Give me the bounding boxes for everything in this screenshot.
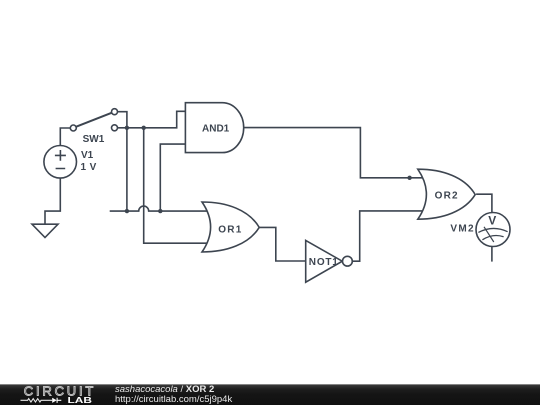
svg-text:VM2: VM2 [450, 223, 474, 234]
svg-text:NOT1: NOT1 [309, 257, 339, 268]
wire NOT1 output to OR2 lower input [352, 211, 427, 261]
voltage source V1 [44, 146, 77, 179]
node junction dot at AND1 input branch [142, 126, 146, 130]
node junction dot at SW1 throws [125, 126, 129, 130]
node junction dot bottom net right [158, 209, 162, 213]
wire AND1 output to OR2 upper input [244, 128, 428, 178]
wire OR1 output to NOT1 input [259, 227, 306, 261]
credit line 1 [115, 384, 214, 395]
and-gate AND1 [185, 103, 243, 153]
logo resistor zigzag [21, 399, 53, 402]
wire AND1 lower input riser [160, 144, 185, 211]
svg-text:V1: V1 [81, 150, 94, 161]
svg-text:1: 1 [81, 162, 87, 173]
logo CIRCUIT LAB [0, 384, 110, 405]
svg-text:V: V [488, 213, 496, 227]
credit line 2 [115, 394, 232, 405]
switch SW1 [70, 125, 76, 131]
wire VM2 bottom stub [491, 247, 493, 262]
wire V1 bottom to ground [45, 178, 60, 224]
not-gate NOT1 [306, 240, 343, 282]
wire junction vertical to OR1 lower input [144, 128, 210, 243]
svg-text:OR1: OR1 [218, 225, 242, 236]
ground [32, 224, 58, 237]
wire SW1 top throw down to common-throw net [118, 112, 127, 211]
logo diode [52, 398, 57, 403]
wire SW1 bottom throw to AND1 upper input [118, 111, 186, 128]
footer bar [0, 384, 540, 405]
wire bottom net with hop over vertical [110, 206, 210, 211]
or-gate OR1 [202, 202, 259, 252]
svg-text:LAB: LAB [68, 396, 92, 405]
voltmeter VM2 [476, 213, 510, 247]
node junction dot bottom net left [125, 209, 129, 213]
wire OR2 output to VM2 [476, 194, 492, 212]
wire V1 top to SW1 common [60, 128, 70, 146]
node junction dot OR2 upper input [407, 176, 411, 180]
svg-text:V: V [90, 162, 97, 173]
svg-text:OR2: OR2 [435, 191, 459, 202]
or-gate OR2 [418, 169, 475, 219]
svg-text:AND1: AND1 [202, 123, 230, 134]
svg-text:SW1: SW1 [83, 134, 105, 145]
